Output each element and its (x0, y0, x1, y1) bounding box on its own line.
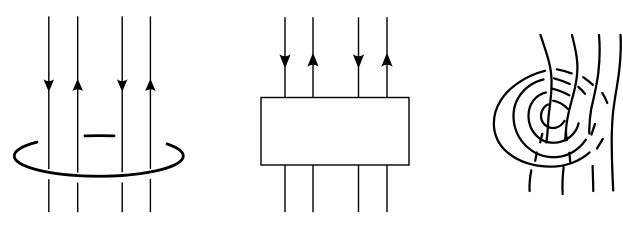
coil turn B (514, 80, 586, 158)
arrowhead up on strand 2 (307, 53, 318, 67)
hidden coil dash N row1 c (602, 93, 607, 103)
exit strand 1 (530, 170, 532, 191)
strand 1 above box (284, 17, 286, 97)
hidden coil dash N row3 a (553, 89, 569, 96)
strand 3 (lower part) (121, 182, 123, 212)
strand 2 below box (312, 165, 314, 212)
arrowhead down on strand 3 (353, 54, 364, 68)
strand 3 (upper part) (121, 16, 123, 172)
strand 1 entering top, through coil centre (541, 35, 552, 143)
strand 3 below box (358, 165, 360, 212)
strand 2 above box (312, 17, 314, 97)
strand 4 entering top, running down right edge (612, 35, 621, 191)
strand 4 (upper part) (149, 16, 151, 169)
strand 1 (lower part) (48, 179, 50, 212)
hidden exit dash SE a (564, 131, 567, 140)
coil turn C (outermost) (494, 71, 590, 167)
coil turn A (529, 93, 579, 143)
strand 4 (lower part) (149, 179, 151, 212)
arrowhead down on strand 1 (279, 54, 290, 68)
coil turn C hidden tail dash (597, 139, 603, 149)
hidden coil dash N row1 b (583, 77, 593, 85)
strand 1 (upper part) (48, 16, 50, 169)
hidden coil dash N row2 a (554, 78, 570, 84)
strand 2 (upper part) (77, 16, 79, 172)
innermost coil main arc (541, 104, 565, 128)
arrowhead up on strand 4 (145, 79, 156, 92)
box (261, 98, 409, 166)
exit strand 3 (591, 166, 594, 191)
strand 1 below box (284, 165, 286, 212)
arrowhead up on strand 4 (381, 53, 392, 67)
strand 3 entering top (589, 35, 599, 134)
hidden coil dash N row2 b (578, 87, 585, 94)
strand 4 above box (386, 17, 388, 97)
strand 4 below box (386, 165, 388, 212)
strand 2 entering top (566, 35, 577, 140)
hidden exit dash SW b (535, 153, 537, 161)
exit strand 2 (562, 168, 563, 195)
strand 3 above box (358, 17, 360, 97)
hidden coil dash N row1 a (557, 69, 572, 73)
innermost coil NE piece (553, 101, 568, 109)
hidden exit dash SW a (540, 134, 542, 143)
arrowhead down on strand 3 (117, 79, 128, 92)
coil turn B hidden tail dash (592, 124, 596, 135)
loop main arc (front + side pieces) (14, 142, 183, 176)
arrowhead up on strand 2 (72, 79, 83, 92)
hidden exit dash SE b (568, 153, 571, 162)
arrowhead down on strand 1 (44, 79, 55, 92)
strand 2 (lower part) (77, 183, 79, 213)
loop back-arc visible dash (85, 134, 114, 137)
